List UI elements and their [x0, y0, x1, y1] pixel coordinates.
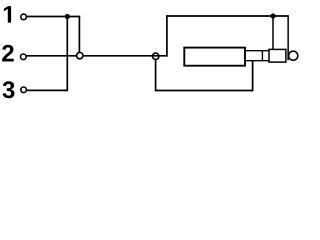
jack sleeve terminal circle [153, 53, 159, 59]
wire row 1 horizontal [26, 16, 80, 18]
wire corner down from row 1 to switch contact [78, 16, 80, 52]
pin label 3 [3, 81, 15, 98]
plug shaft top line [245, 50, 270, 52]
wire row 3 horizontal [27, 89, 68, 91]
plug tip [289, 51, 298, 60]
junction dot node B [270, 13, 275, 18]
terminal circle pin 2 [21, 54, 27, 60]
terminal circle pin 3 [21, 87, 27, 93]
junction dot node A [65, 14, 70, 19]
pin label 1 [4, 6, 11, 23]
plug shaft bottom line [245, 60, 270, 62]
wire tip contact vertical [287, 15, 289, 60]
wire row 2 right segment to jack [84, 55, 168, 57]
plug shaft insulator separator [261, 50, 263, 61]
switch contact circle [77, 52, 83, 58]
wire sleeve bottom U path [156, 59, 253, 90]
wire vertical from node A down to row 3 [66, 17, 68, 91]
pin label 2 [2, 45, 14, 62]
wire row 2 left segment [26, 55, 76, 57]
plug ring band [269, 49, 286, 62]
wire vertical up at left of jack [166, 15, 168, 56]
terminal circle pin 1 [21, 14, 27, 20]
plug body barrel [184, 48, 245, 66]
wire jack top horizontal [166, 15, 288, 17]
wire ring contact vertical [272, 16, 274, 50]
